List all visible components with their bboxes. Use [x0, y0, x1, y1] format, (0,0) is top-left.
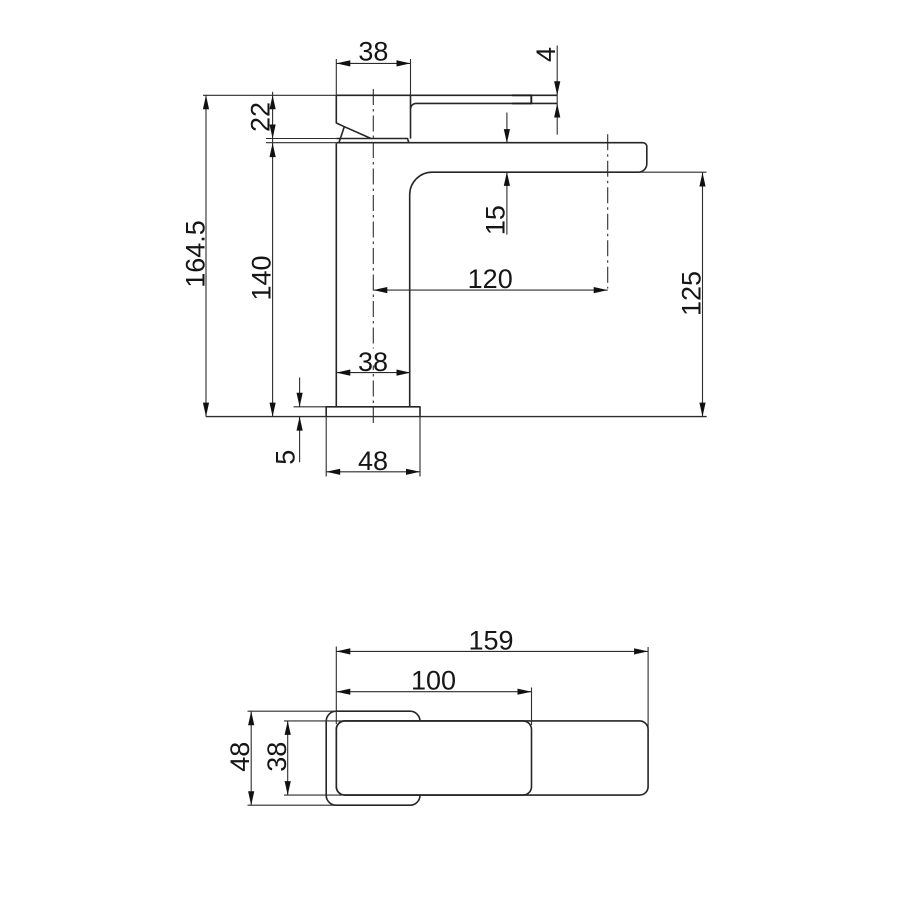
svg-text:5: 5 — [271, 450, 301, 465]
svg-text:125: 125 — [677, 271, 707, 316]
svg-text:164.5: 164.5 — [181, 220, 211, 288]
svg-text:22: 22 — [246, 102, 276, 132]
svg-text:48: 48 — [225, 742, 255, 772]
svg-text:159: 159 — [468, 625, 513, 655]
svg-text:38: 38 — [262, 742, 292, 772]
svg-text:38: 38 — [358, 347, 388, 377]
svg-text:38: 38 — [358, 37, 388, 67]
svg-text:140: 140 — [247, 255, 277, 300]
svg-text:48: 48 — [358, 446, 388, 476]
svg-text:15: 15 — [481, 205, 511, 235]
svg-text:120: 120 — [468, 264, 513, 294]
svg-text:100: 100 — [411, 666, 456, 696]
svg-text:4: 4 — [531, 47, 561, 62]
